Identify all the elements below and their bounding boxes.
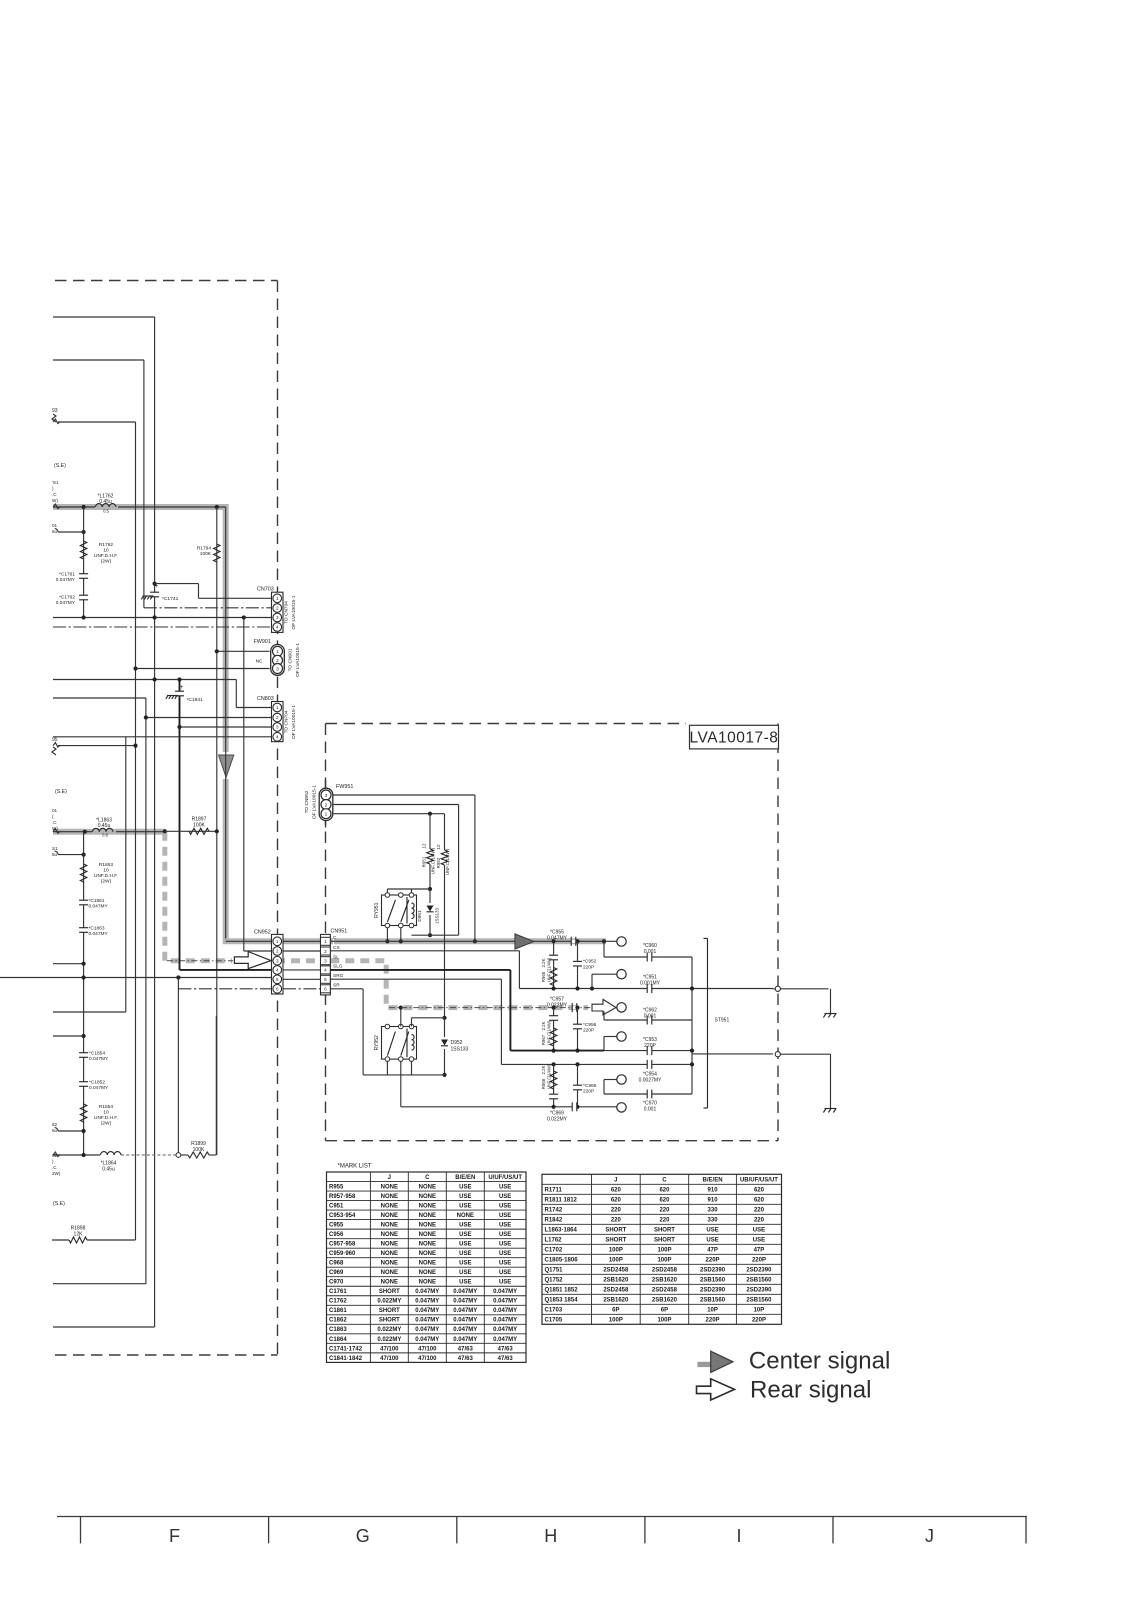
svg-text:USE: USE (459, 1242, 471, 1248)
svg-text:FW901: FW901 (254, 639, 271, 645)
svg-text:NONE: NONE (381, 1194, 398, 1200)
svg-text:CN703: CN703 (257, 587, 274, 593)
svg-text:910: 910 (708, 1187, 719, 1193)
svg-text:2SB1620: 2SB1620 (652, 1297, 678, 1303)
svg-text:L1762: L1762 (545, 1237, 563, 1243)
svg-text:B/E/EN: B/E/EN (703, 1177, 723, 1183)
svg-text:R1811 1812: R1811 1812 (545, 1197, 578, 1203)
svg-text:R965: R965 (541, 971, 546, 982)
svg-text:.C: .C (52, 1165, 57, 1170)
svg-text:USE: USE (499, 1223, 511, 1229)
svg-text:SLG: SLG (333, 964, 343, 970)
svg-text:47/100: 47/100 (418, 1346, 437, 1352)
svg-text:NONE: NONE (419, 1261, 436, 1267)
svg-text:D952: D952 (451, 1040, 463, 1046)
svg-text:R968: R968 (541, 1078, 546, 1089)
svg-text:100K: 100K (193, 1147, 205, 1153)
svg-text:*C1863: *C1863 (89, 926, 105, 932)
svg-text:C: C (333, 935, 337, 941)
svg-text:C953·954: C953·954 (329, 1213, 356, 1219)
svg-text:USE: USE (459, 1251, 471, 1257)
svg-text:USE: USE (459, 1184, 471, 1190)
svg-text:NONE: NONE (381, 1223, 398, 1229)
svg-text:2SB1620: 2SB1620 (603, 1277, 629, 1283)
svg-text:USE: USE (459, 1203, 471, 1209)
svg-text:0.047MY: 0.047MY (493, 1308, 517, 1314)
svg-text:2SB1560: 2SB1560 (746, 1297, 772, 1303)
svg-text:(1/4W): (1/4W) (547, 957, 552, 970)
svg-text:2SD2390: 2SD2390 (700, 1287, 726, 1293)
svg-text:'S1: 'S1 (52, 480, 59, 485)
svg-text:10: 10 (103, 548, 109, 554)
svg-text:2SD2458: 2SD2458 (603, 1267, 629, 1273)
svg-text:220: 220 (611, 1217, 622, 1223)
svg-text:3: 3 (276, 725, 279, 730)
svg-text:5: 5 (324, 977, 327, 982)
svg-text:USE: USE (499, 1242, 511, 1248)
svg-text:47/63: 47/63 (458, 1356, 474, 1362)
svg-text:220P: 220P (752, 1257, 766, 1263)
svg-text:ST951: ST951 (715, 1018, 730, 1024)
svg-text:(1/4W): (1/4W) (547, 1064, 552, 1077)
svg-text:UNF.C: UNF.C (547, 970, 552, 982)
svg-text:B/E/EN: B/E/EN (455, 1175, 475, 1181)
svg-text:UNF.C: UNF.C (547, 1077, 552, 1089)
svg-text:1: 1 (325, 812, 328, 818)
svg-text:2.2K: 2.2K (541, 1065, 546, 1074)
svg-text:2SB1560: 2SB1560 (700, 1297, 726, 1303)
svg-text:0.047MY: 0.047MY (89, 904, 109, 910)
svg-text:NONE: NONE (419, 1203, 436, 1209)
svg-text:0.001: 0.001 (644, 1107, 657, 1113)
svg-text:10: 10 (103, 1110, 109, 1116)
svg-text:93: 93 (52, 408, 58, 414)
svg-text:0.047MY: 0.047MY (415, 1299, 439, 1305)
svg-text:CN952: CN952 (254, 929, 271, 935)
svg-text:I: I (736, 1526, 741, 1546)
svg-text:6P: 6P (612, 1307, 619, 1313)
svg-text:1: 1 (276, 596, 279, 601)
svg-text:+: + (180, 684, 184, 691)
svg-text:SHORT: SHORT (379, 1308, 400, 1314)
svg-text:+: + (155, 583, 159, 590)
svg-text:0.45u: 0.45u (99, 499, 112, 505)
svg-text:620: 620 (611, 1197, 622, 1203)
svg-text:2W): 2W) (52, 1171, 61, 1176)
svg-text:(2W): (2W) (101, 879, 112, 885)
svg-text:W): W) (52, 826, 58, 831)
svg-text:Q1752: Q1752 (545, 1277, 564, 1283)
svg-text:0.047MY: 0.047MY (547, 935, 568, 941)
svg-text:C969: C969 (329, 1270, 344, 1276)
svg-text:G: G (356, 1526, 370, 1546)
svg-text:USE: USE (499, 1213, 511, 1219)
svg-text:UNF.C(1/4W): UNF.C(1/4W) (445, 848, 450, 875)
svg-text:1: 1 (276, 705, 279, 710)
svg-text:0.047MY: 0.047MY (453, 1337, 477, 1343)
svg-text:3: 3 (276, 958, 279, 963)
svg-text:220P: 220P (583, 1028, 594, 1034)
svg-text:330: 330 (708, 1217, 719, 1223)
svg-text:NONE: NONE (419, 1223, 436, 1229)
svg-text:UNF.D.H.F.: UNF.D.H.F. (94, 553, 118, 559)
svg-text:NONE: NONE (419, 1184, 436, 1190)
svg-text:TO CN704: TO CN704 (284, 601, 290, 624)
svg-text:R1794: R1794 (197, 546, 211, 552)
svg-text:OF LVA10015-1: OF LVA10015-1 (311, 785, 317, 819)
svg-text:1: 1 (324, 939, 327, 944)
svg-text:R1854: R1854 (99, 1104, 113, 1110)
svg-text:C1863: C1863 (329, 1327, 347, 1333)
svg-text:.C: .C (52, 820, 57, 825)
svg-text:U/UF/US/UT: U/UF/US/UT (488, 1175, 522, 1181)
svg-text:USE: USE (459, 1223, 471, 1229)
svg-text:100P: 100P (609, 1257, 623, 1263)
svg-text:R967: R967 (541, 1034, 546, 1045)
svg-text:C955: C955 (329, 1223, 344, 1229)
svg-text:220P: 220P (706, 1317, 720, 1323)
svg-text:10P: 10P (707, 1307, 718, 1313)
svg-text:2: 2 (324, 949, 327, 954)
svg-text:R1742: R1742 (545, 1207, 563, 1213)
svg-text:J: J (925, 1526, 934, 1546)
svg-text:12: 12 (436, 844, 441, 850)
svg-text:95: 95 (52, 737, 58, 743)
svg-text:R1711: R1711 (545, 1187, 563, 1193)
svg-text:2SD2458: 2SD2458 (603, 1287, 629, 1293)
svg-text:NONE: NONE (381, 1242, 398, 1248)
svg-text:0.022MY: 0.022MY (377, 1337, 401, 1343)
svg-text:Q1851 1852: Q1851 1852 (545, 1287, 579, 1293)
svg-text:2SB1560: 2SB1560 (746, 1277, 772, 1283)
svg-text:*C1841: *C1841 (187, 697, 204, 703)
svg-text:220: 220 (659, 1207, 670, 1213)
svg-text:SHORT: SHORT (654, 1237, 675, 1243)
svg-text:220: 220 (754, 1207, 765, 1213)
svg-text:C1862: C1862 (329, 1318, 347, 1324)
svg-text:47/100: 47/100 (418, 1356, 437, 1362)
svg-text:USE: USE (499, 1194, 511, 1200)
svg-text:C1762: C1762 (329, 1299, 347, 1305)
svg-text:USE: USE (459, 1194, 471, 1200)
svg-text:SHORT: SHORT (605, 1227, 626, 1233)
svg-text:0.047MY: 0.047MY (415, 1289, 439, 1295)
svg-text:R952: R952 (436, 857, 441, 868)
svg-text:SR: SR (333, 983, 340, 989)
svg-text:0.047MY: 0.047MY (89, 931, 109, 937)
svg-text:TO CN704: TO CN704 (284, 710, 290, 733)
svg-text:0.047MY: 0.047MY (415, 1327, 439, 1333)
svg-text:6: 6 (276, 987, 279, 992)
svg-text:OF LVA10015-1: OF LVA10015-1 (291, 595, 297, 629)
svg-text:*C1741: *C1741 (162, 596, 179, 602)
svg-text:*C1762: *C1762 (59, 595, 75, 601)
svg-text:1: 1 (276, 939, 279, 944)
svg-text:C968: C968 (329, 1261, 344, 1267)
svg-text:620: 620 (611, 1187, 622, 1193)
svg-text:2.2K: 2.2K (541, 1021, 546, 1030)
svg-text:100P: 100P (657, 1317, 671, 1323)
svg-text:C951: C951 (329, 1203, 344, 1209)
svg-text:C1702: C1702 (545, 1247, 563, 1253)
svg-text:Q1751: Q1751 (545, 1267, 564, 1273)
svg-text:UNF.D.H.F.: UNF.D.H.F. (94, 873, 118, 879)
svg-text:0.047MY: 0.047MY (453, 1308, 477, 1314)
svg-text:100K: 100K (193, 823, 205, 829)
svg-text:RY951: RY951 (374, 902, 380, 917)
svg-text:USE: USE (753, 1227, 765, 1233)
svg-text:4: 4 (324, 968, 327, 973)
svg-text:NONE: NONE (419, 1280, 436, 1286)
svg-text:NONE: NONE (381, 1280, 398, 1286)
svg-text:NONE: NONE (419, 1251, 436, 1257)
svg-text:C1805·1806: C1805·1806 (545, 1257, 579, 1263)
svg-text:62: 62 (52, 1122, 58, 1127)
svg-text:0.047MY: 0.047MY (415, 1337, 439, 1343)
svg-text:0.5: 0.5 (103, 509, 109, 514)
svg-text:0.022MY: 0.022MY (547, 1117, 568, 1123)
svg-text:Q1853 1854: Q1853 1854 (545, 1297, 579, 1303)
svg-text:USE: USE (459, 1232, 471, 1238)
svg-text:C1761: C1761 (329, 1289, 347, 1295)
svg-text:W): W) (52, 498, 58, 503)
svg-text:C970: C970 (329, 1280, 344, 1286)
svg-text:220P: 220P (706, 1257, 720, 1263)
svg-text:C1864: C1864 (329, 1337, 347, 1343)
svg-text:220: 220 (659, 1217, 670, 1223)
svg-text:12: 12 (422, 843, 427, 849)
svg-text:0.0027MY: 0.0027MY (639, 1078, 662, 1084)
svg-text:100P: 100P (657, 1247, 671, 1253)
svg-text:RY952: RY952 (374, 1035, 380, 1050)
svg-text:*MARK LIST: *MARK LIST (338, 1164, 372, 1170)
svg-text:USE: USE (706, 1227, 718, 1233)
svg-text:(S.E): (S.E) (55, 789, 67, 795)
svg-text:620: 620 (659, 1187, 670, 1193)
svg-text:2: 2 (276, 606, 279, 611)
svg-text:0.047MY: 0.047MY (493, 1337, 517, 1343)
svg-text:4: 4 (276, 968, 279, 973)
svg-text:*C1852: *C1852 (89, 1080, 105, 1086)
svg-text:2SD2390: 2SD2390 (746, 1267, 772, 1273)
svg-text:USE: USE (499, 1232, 511, 1238)
svg-text:2SD2390: 2SD2390 (746, 1287, 772, 1293)
svg-text:100P: 100P (609, 1247, 623, 1253)
svg-text:R1842: R1842 (545, 1217, 563, 1223)
svg-text:USE: USE (459, 1261, 471, 1267)
svg-text:0.022MY: 0.022MY (547, 1002, 568, 1008)
svg-text:220P: 220P (752, 1317, 766, 1323)
svg-text:SL: SL (333, 955, 339, 961)
svg-text:USE: USE (499, 1184, 511, 1190)
svg-text:NONE: NONE (381, 1213, 398, 1219)
svg-text:SHORT: SHORT (379, 1289, 400, 1295)
svg-text:NONE: NONE (419, 1232, 436, 1238)
svg-text:C959·960: C959·960 (329, 1251, 356, 1257)
svg-text:0.047MY: 0.047MY (415, 1308, 439, 1314)
svg-text:C957·958: C957·958 (329, 1242, 356, 1248)
svg-text:*C956: *C956 (583, 1022, 597, 1028)
svg-text:C1741·1742: C1741·1742 (329, 1346, 363, 1352)
svg-text:0.047MY: 0.047MY (493, 1327, 517, 1333)
svg-text:620: 620 (754, 1197, 765, 1203)
svg-text:USE: USE (499, 1203, 511, 1209)
svg-text:CS: CS (333, 945, 340, 951)
svg-text:0.001MY: 0.001MY (640, 981, 661, 987)
svg-text:01: 01 (52, 523, 58, 528)
svg-text:NONE: NONE (457, 1213, 474, 1219)
svg-text:NONE: NONE (381, 1203, 398, 1209)
svg-text:NONE: NONE (419, 1270, 436, 1276)
svg-text:*C966: *C966 (583, 1083, 597, 1089)
svg-text:UNF.D.H.F.: UNF.D.H.F. (94, 1115, 118, 1121)
svg-text:3: 3 (276, 666, 279, 672)
svg-text:*C1854: *C1854 (89, 1051, 105, 1057)
svg-text:*C952: *C952 (583, 959, 597, 965)
svg-text:R955: R955 (329, 1184, 344, 1190)
svg-text:USE: USE (753, 1237, 765, 1243)
svg-text:R957·958: R957·958 (329, 1194, 356, 1200)
svg-text:4: 4 (276, 735, 279, 740)
svg-text:2: 2 (325, 802, 328, 808)
svg-text:3: 3 (324, 959, 327, 964)
svg-text:0.047MY: 0.047MY (89, 1085, 109, 1091)
svg-text:0.45u: 0.45u (102, 1167, 115, 1173)
svg-text:NONE: NONE (381, 1261, 398, 1267)
svg-text:0.047MY: 0.047MY (453, 1327, 477, 1333)
svg-text:R951: R951 (422, 856, 427, 867)
svg-text:NONE: NONE (381, 1232, 398, 1238)
svg-text:SHORT: SHORT (654, 1227, 675, 1233)
svg-text:100P: 100P (609, 1317, 623, 1323)
svg-text:.C: .C (52, 492, 57, 497)
svg-text:UB/UF/US/UT: UB/UF/US/UT (740, 1177, 778, 1183)
svg-text:NONE: NONE (419, 1213, 436, 1219)
svg-text:J: J (614, 1177, 617, 1183)
svg-text:62: 62 (52, 1153, 58, 1158)
svg-text:Center signal: Center signal (749, 1347, 890, 1374)
svg-text:2SB1620: 2SB1620 (603, 1297, 629, 1303)
svg-text:0.45u: 0.45u (98, 823, 111, 829)
svg-text:220P: 220P (583, 964, 594, 970)
svg-text:12K: 12K (74, 1232, 84, 1238)
svg-text:47P: 47P (707, 1247, 718, 1253)
svg-text:2SB1620: 2SB1620 (652, 1277, 678, 1283)
svg-text:6: 6 (324, 987, 327, 992)
svg-text:1SS133: 1SS133 (451, 1047, 469, 1053)
svg-text:6P: 6P (661, 1307, 668, 1313)
svg-text:220: 220 (754, 1217, 765, 1223)
svg-text:UNF.C(1/4W): UNF.C(1/4W) (431, 847, 436, 874)
svg-text:NONE: NONE (381, 1270, 398, 1276)
svg-text:5u: 5u (52, 1128, 58, 1133)
svg-text:100K: 100K (200, 551, 212, 557)
svg-text:47P: 47P (754, 1247, 765, 1253)
svg-text:D951: D951 (417, 910, 422, 922)
svg-text:100P: 100P (657, 1257, 671, 1263)
svg-text:F: F (169, 1526, 180, 1546)
svg-text:TO CN901: TO CN901 (288, 648, 294, 671)
svg-text:LVA10017-8: LVA10017-8 (690, 730, 779, 747)
svg-text:NONE: NONE (419, 1242, 436, 1248)
svg-text:C1861: C1861 (329, 1308, 347, 1314)
svg-text:0.047MY: 0.047MY (415, 1318, 439, 1324)
svg-text:47/100: 47/100 (380, 1356, 399, 1362)
svg-text:H: H (544, 1526, 557, 1546)
svg-text:S1: S1 (52, 846, 58, 851)
svg-text:*C1861: *C1861 (89, 898, 105, 904)
svg-text:0.047MY: 0.047MY (493, 1299, 517, 1305)
svg-text:C1705: C1705 (545, 1317, 563, 1323)
svg-text:330: 330 (708, 1207, 719, 1213)
svg-text:220P: 220P (644, 1043, 656, 1049)
svg-text:0.047MY: 0.047MY (56, 577, 76, 583)
svg-text:0.047MY: 0.047MY (493, 1289, 517, 1295)
svg-text:3: 3 (276, 615, 279, 620)
svg-text:220P: 220P (583, 1089, 594, 1095)
svg-text:(2W): (2W) (101, 559, 112, 565)
svg-text:2.2K: 2.2K (541, 958, 546, 967)
svg-text:10P: 10P (754, 1307, 765, 1313)
svg-text:C956: C956 (329, 1232, 344, 1238)
svg-text:0.047MY: 0.047MY (89, 1056, 109, 1062)
svg-text:(2W): (2W) (101, 1121, 112, 1127)
svg-text:220: 220 (611, 1207, 622, 1213)
svg-text:47/100: 47/100 (380, 1346, 399, 1352)
svg-text:2SD2458: 2SD2458 (652, 1267, 678, 1273)
svg-text:*C1761: *C1761 (59, 572, 75, 578)
svg-text:USE: USE (499, 1280, 511, 1286)
svg-text:R1853: R1853 (99, 862, 113, 868)
svg-text:USE: USE (706, 1237, 718, 1243)
svg-text:0.001: 0.001 (644, 1014, 657, 1020)
svg-text:USE: USE (499, 1270, 511, 1276)
svg-text:0.047MY: 0.047MY (453, 1318, 477, 1324)
svg-text:Rear signal: Rear signal (750, 1376, 871, 1403)
svg-text:0.022MY: 0.022MY (377, 1299, 401, 1305)
svg-text:CN803: CN803 (257, 696, 274, 702)
svg-text:1: 1 (276, 649, 279, 655)
svg-text:2: 2 (276, 949, 279, 954)
svg-text:01: 01 (52, 808, 58, 813)
svg-text:(1/4W): (1/4W) (547, 1020, 552, 1033)
svg-text:SHORT: SHORT (605, 1237, 626, 1243)
svg-text:4: 4 (276, 625, 279, 630)
svg-text:L1863·1864: L1863·1864 (545, 1227, 578, 1233)
svg-text:0.022MY: 0.022MY (377, 1327, 401, 1333)
svg-text:47/63: 47/63 (498, 1356, 514, 1362)
svg-text:0.047MY: 0.047MY (453, 1299, 477, 1305)
svg-text:2SD2458: 2SD2458 (652, 1287, 678, 1293)
svg-text:(S.E): (S.E) (54, 463, 66, 469)
svg-text:1SS133: 1SS133 (435, 907, 440, 924)
svg-text:0.047MY: 0.047MY (493, 1318, 517, 1324)
svg-text:3: 3 (325, 793, 328, 799)
svg-text:TO CN952: TO CN952 (304, 790, 310, 813)
svg-text:NONE: NONE (381, 1251, 398, 1257)
svg-text:CN951: CN951 (331, 928, 348, 934)
svg-text:47/63: 47/63 (458, 1346, 474, 1352)
svg-text:UNF.C: UNF.C (547, 1033, 552, 1045)
svg-text:5u: 5u (52, 852, 58, 857)
svg-text:2SB1560: 2SB1560 (700, 1277, 726, 1283)
svg-text:10: 10 (103, 868, 109, 874)
svg-text:620: 620 (659, 1197, 670, 1203)
svg-text:NONE: NONE (381, 1184, 398, 1190)
svg-text:910: 910 (708, 1197, 719, 1203)
svg-text:C1703: C1703 (545, 1307, 563, 1313)
svg-text:USE: USE (499, 1261, 511, 1267)
